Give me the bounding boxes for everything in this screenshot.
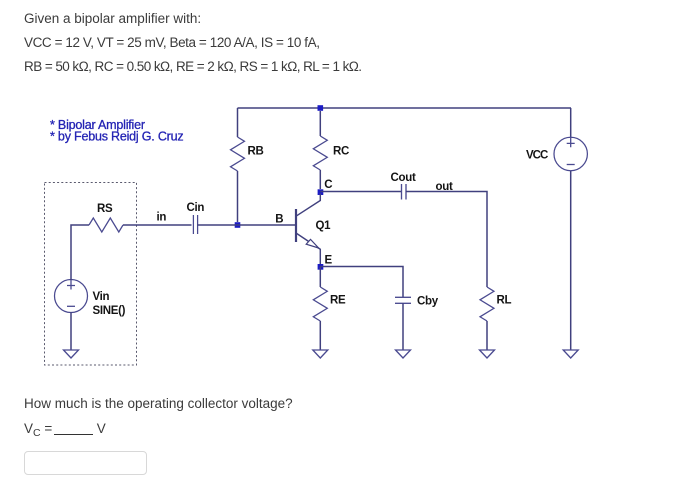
label C <box>324 179 332 191</box>
label Vin <box>93 291 110 303</box>
svg-text:B: B <box>275 214 283 226</box>
ground (RL) <box>480 350 495 358</box>
wire: Cout to out corner <box>406 192 487 288</box>
ground (Vin) <box>64 350 79 358</box>
label SINE() <box>93 305 126 317</box>
svg-text:SINE(): SINE() <box>93 305 126 317</box>
top problem statement <box>24 11 201 27</box>
label Cout <box>391 172 416 184</box>
node E <box>318 264 324 270</box>
wire: RS to Cin <box>123 224 192 226</box>
label Q1 <box>316 220 332 232</box>
svg-text:* by Febus Reidj G. Cruz: * by Febus Reidj G. Cruz <box>50 130 183 144</box>
node C <box>318 189 324 195</box>
ground (VCC) <box>563 350 578 358</box>
wire: Cin to node B <box>197 224 237 226</box>
label RL <box>497 295 512 307</box>
node: rail / RC junction <box>318 105 324 111</box>
svg-text:Cin: Cin <box>187 202 205 214</box>
svg-text:E: E <box>325 255 333 267</box>
label in <box>157 212 167 224</box>
svg-text:VCC: VCC <box>526 150 548 162</box>
label out <box>436 181 453 193</box>
resistor RC <box>313 111 327 189</box>
svg-text:out: out <box>436 181 453 193</box>
wire: collector node to Cout <box>320 191 401 193</box>
resistor RL <box>480 287 494 350</box>
voltage source Vin <box>55 280 88 313</box>
label B <box>275 214 283 226</box>
svg-text:Q1: Q1 <box>316 220 332 232</box>
transistor Q1 <box>296 194 320 265</box>
wire: top supply rail <box>238 107 572 109</box>
label RB <box>248 146 264 158</box>
question text <box>24 396 293 412</box>
resistor RB <box>231 108 245 222</box>
svg-text:RB: RB <box>248 146 264 158</box>
svg-text:C: C <box>324 179 332 191</box>
capacitor Cout <box>402 184 407 200</box>
resistor RE <box>313 267 327 351</box>
label RS <box>97 203 113 215</box>
voltage source VCC <box>554 137 587 170</box>
node B <box>235 222 241 228</box>
svg-text:RC: RC <box>333 146 349 158</box>
label RE <box>330 295 346 307</box>
dashed box: input source block <box>45 183 137 366</box>
answer input box <box>24 451 148 475</box>
label E <box>325 255 333 267</box>
wire: VCC drop from rail <box>570 108 572 138</box>
capacitor Cby <box>395 297 411 350</box>
wire: emitter to Cby corner <box>320 267 403 298</box>
svg-text:RL: RL <box>497 295 512 307</box>
wire: Vin to RS <box>71 225 89 280</box>
svg-text:Cout: Cout <box>391 172 416 184</box>
comment text: Bipolar Amplifier <box>50 118 145 132</box>
wire: Vin to ground <box>70 312 72 350</box>
resistor RS <box>89 218 123 232</box>
label RC <box>333 146 349 158</box>
ground (RE) <box>313 350 328 358</box>
svg-text:in: in <box>157 212 167 224</box>
svg-text:Cby: Cby <box>417 296 439 308</box>
svg-text:RS: RS <box>97 203 113 215</box>
ground (Cby) <box>396 350 411 358</box>
wire: base wire <box>238 224 296 226</box>
label Cby <box>417 296 439 308</box>
label VCC <box>526 150 548 162</box>
label Cin <box>187 202 205 214</box>
svg-text:Vin: Vin <box>93 291 110 303</box>
wire: VCC to ground <box>570 171 572 350</box>
svg-text:RE: RE <box>330 295 346 307</box>
comment text: by Febus Reidj G. Cruz <box>50 130 183 144</box>
capacitor Cin <box>193 215 197 234</box>
